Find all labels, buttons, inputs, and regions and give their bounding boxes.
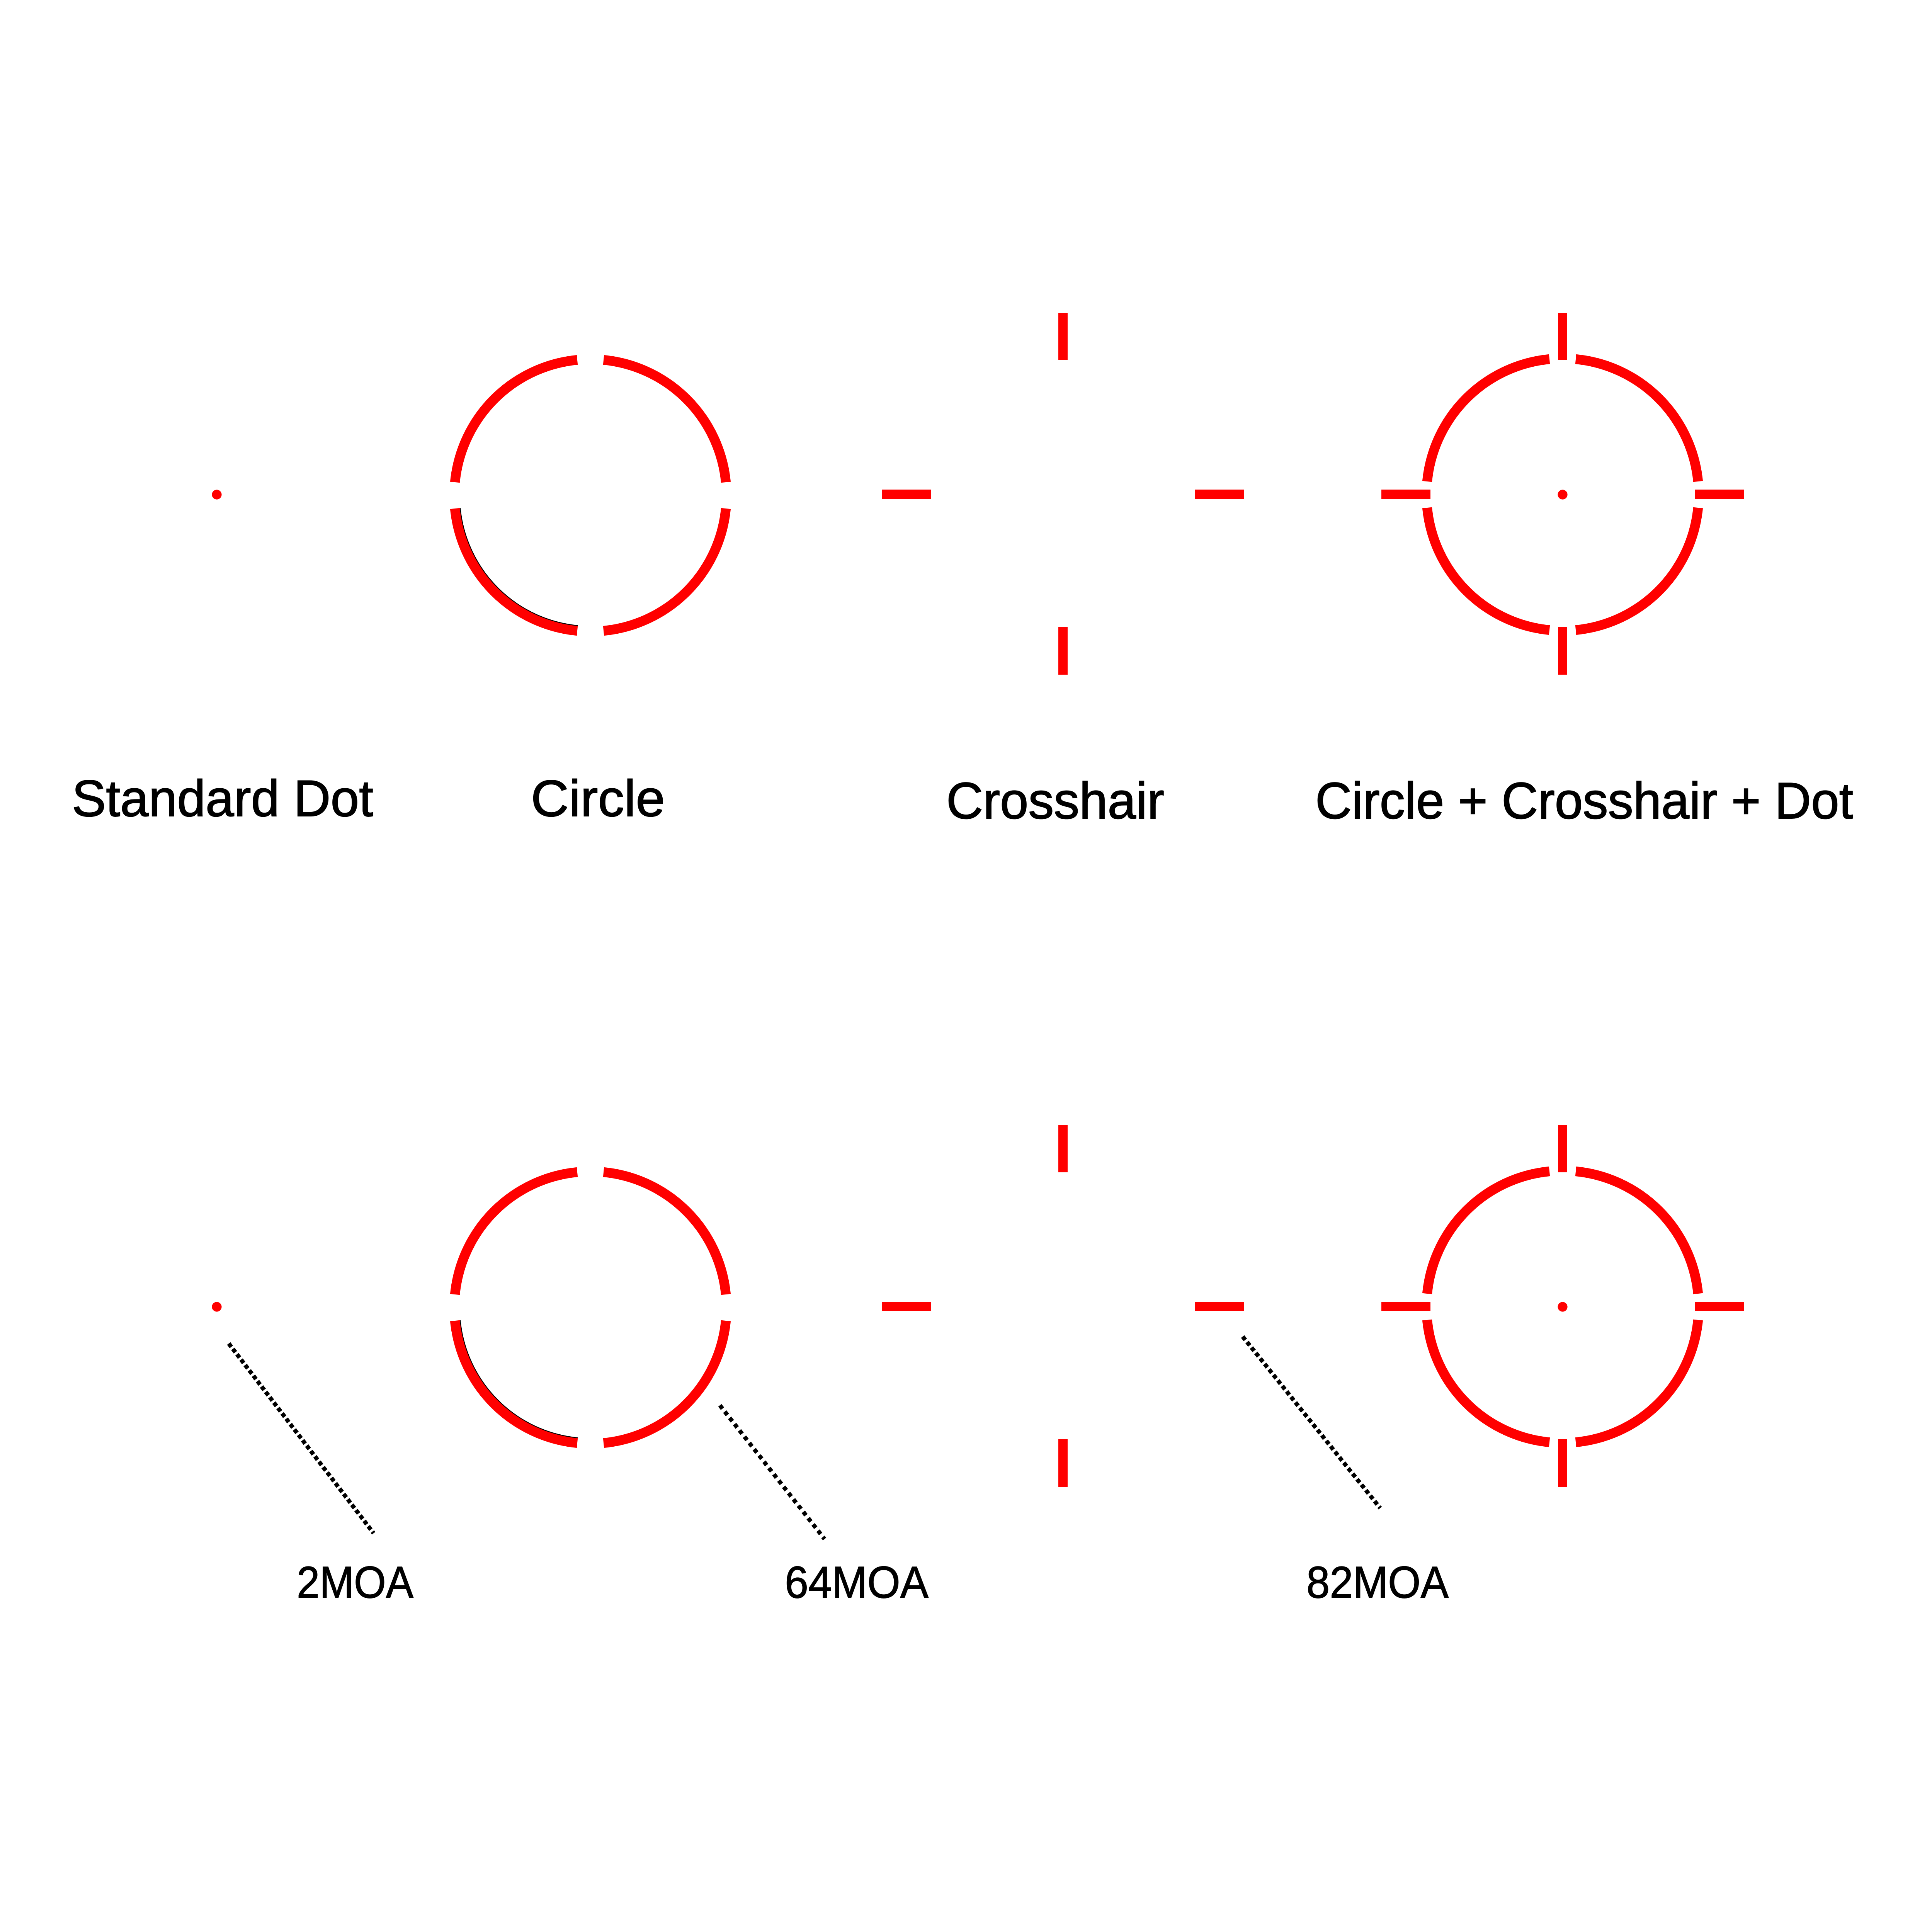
reticle 4 (top row): circle+crosshair+dot - right tick	[1695, 490, 1744, 499]
reticle 4 (top row): circle+crosshair+dot - top-right arc	[1576, 359, 1698, 481]
reticle 2 (bottom row): circle - bottom-right arc	[604, 1321, 726, 1443]
svg-text:2MOA: 2MOA	[297, 1557, 414, 1607]
reticle 3 (bottom row): crosshair - right tick	[1195, 1302, 1244, 1311]
reticle 2 (top row): circle - top-left arc	[455, 360, 577, 482]
svg-text:64MOA: 64MOA	[785, 1557, 929, 1607]
reticle 2 (top row): circle - bottom-left arc	[455, 509, 577, 631]
reticle 2 (top row): circle - top-right arc	[604, 360, 726, 482]
reticle 2 (bottom row): circle - black inner shadow arc (lower-left)	[460, 1320, 578, 1438]
reticle 4 (bottom row): circle+crosshair+dot - bottom-left arc	[1427, 1320, 1549, 1442]
reticle 1 (top row): standard dot	[212, 490, 221, 499]
reticle 4 (bottom row): circle+crosshair+dot - left tick	[1381, 1302, 1430, 1311]
reticle 4 (bottom row): circle+crosshair+dot - center dot	[1558, 1302, 1567, 1311]
svg-text:Circle: Circle	[531, 770, 665, 827]
svg-text:Crosshair: Crosshair	[946, 772, 1164, 830]
reticle 2 (top row): circle - black inner shadow arc (lower-left)	[460, 508, 578, 626]
svg-text:Standard Dot: Standard Dot	[72, 770, 373, 827]
reticle 3 (bottom row): crosshair - top tick	[1058, 1125, 1068, 1172]
reticle 4 (top row): circle+crosshair+dot - center dot	[1558, 490, 1567, 499]
reticle 4 (bottom row): circle+crosshair+dot - top-left arc	[1427, 1171, 1549, 1294]
reticle 3 (bottom row): crosshair - left tick	[882, 1302, 931, 1311]
reticle 3 (top row): crosshair - left tick	[882, 490, 931, 499]
reticle 3 (top row): crosshair - top tick	[1058, 313, 1068, 360]
svg-text:Circle + Crosshair + Dot: Circle + Crosshair + Dot	[1315, 772, 1853, 830]
reticle 4 (top row): circle+crosshair+dot - bottom-left arc	[1427, 508, 1549, 630]
reticle 2 (top row): circle - bottom-right arc	[604, 509, 726, 631]
reticle 4 (bottom row): circle+crosshair+dot - right tick	[1695, 1302, 1744, 1311]
reticle 4 (bottom row): circle+crosshair+dot - top-right arc	[1576, 1171, 1698, 1294]
reticle 4 (top row): circle+crosshair+dot - top-left arc	[1427, 359, 1549, 481]
reticle 4 (bottom row): circle+crosshair+dot - top tick	[1558, 1125, 1567, 1172]
reticle 4 (bottom row): circle+crosshair+dot - bottom tick	[1558, 1439, 1567, 1487]
reticle 4 (top row): circle+crosshair+dot - bottom-right arc	[1576, 508, 1698, 630]
reticle 4 (top row): circle+crosshair+dot - top tick	[1558, 313, 1567, 360]
reticle 3 (bottom row): crosshair - bottom tick	[1058, 1439, 1068, 1487]
svg-text:82MOA: 82MOA	[1306, 1557, 1449, 1607]
reticle 4 (top row): circle+crosshair+dot - left tick	[1381, 490, 1430, 499]
reticle 2 (bottom row): circle - top-right arc	[604, 1172, 726, 1294]
reticle 3 (top row): crosshair - bottom tick	[1058, 627, 1068, 675]
leader line: dot to 2MOA	[229, 1344, 374, 1533]
leader line: circle to 64MOA	[720, 1405, 825, 1539]
reticle 2 (bottom row): circle - top-left arc	[455, 1172, 577, 1294]
reticle 3 (top row): crosshair - right tick	[1195, 490, 1244, 499]
reticle 4 (bottom row): circle+crosshair+dot - bottom-right arc	[1576, 1320, 1698, 1442]
reticle 2 (bottom row): circle - bottom-left arc	[455, 1321, 577, 1443]
reticle 1 (bottom row): standard dot	[212, 1302, 221, 1311]
leader line: crosshair tick to 82MOA	[1243, 1337, 1380, 1508]
reticle 4 (top row): circle+crosshair+dot - bottom tick	[1558, 627, 1567, 675]
